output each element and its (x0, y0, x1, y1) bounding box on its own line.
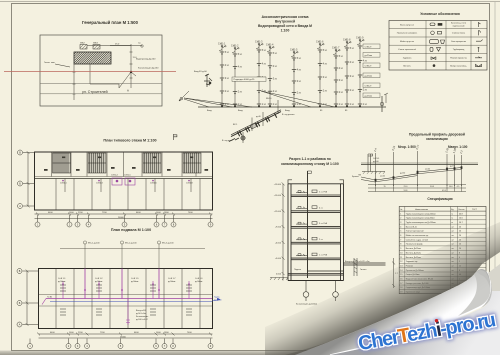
inner walls basement (39, 269, 213, 329)
svg-text:д=100: д=100 (373, 161, 380, 163)
spec row 8 (399, 245, 486, 247)
spec row 2 (399, 219, 486, 221)
svg-text:Ввод В1 д=50: Ввод В1 д=50 (194, 71, 208, 73)
svg-text:1 эт. РеВ: 1 эт. РеВ (319, 255, 328, 257)
window ticks top (40, 152, 211, 210)
outlet labels (345, 261, 370, 271)
svg-text:СтВ1-8: СтВ1-8 (186, 183, 193, 185)
stairwell block 2 (88, 153, 106, 173)
top band fixtures (44, 157, 208, 171)
svg-text:4 эт.: 4 эт. (262, 64, 267, 66)
svg-text:В. гор.давлен: В. гор.давлен (282, 114, 295, 116)
curl rim highlight (330, 272, 491, 355)
svg-text:КК1-1 д=100: КК1-1 д=100 (88, 242, 100, 244)
svg-text:Выпуск д=100 i=0.02 L=5м: Выпуск д=100 i=0.02 L=5м (345, 261, 370, 263)
svg-text:5 эт.: 5 эт. (297, 58, 302, 60)
svg-text:Условные обозначения: Условные обозначения (420, 12, 460, 16)
well circle KK (141, 45, 143, 47)
svg-text:55.8: 55.8 (404, 190, 408, 192)
svg-text:Ст.В 1-5: Ст.В 1-5 (131, 278, 139, 280)
svg-text:канализационному стояку М 1:10: канализационному стояку М 1:100 (281, 162, 339, 166)
svg-text:14.6: 14.6 (459, 218, 463, 220)
spec row 10 (399, 254, 486, 256)
right end riser with circle (381, 96, 383, 112)
svg-text:Задвижка: Задвижка (403, 57, 412, 59)
left outfall (361, 177, 376, 182)
svg-text:Сливная бочка: Сливная бочка (452, 33, 466, 35)
top dimension line (87, 45, 131, 47)
svg-text:5 эт.: 5 эт. (350, 48, 355, 50)
extra shadow wedge lower-left (285, 322, 385, 355)
svg-text:СтВ1-2: СтВ1-2 (231, 45, 239, 47)
svg-text:КК1-3 д=100: КК1-3 д=100 (162, 242, 174, 244)
legend symbols col2 (430, 23, 445, 67)
svg-text:5 эт. РеВ: 5 эт. РеВ (319, 192, 328, 194)
svg-text:шт: шт (452, 235, 455, 237)
riser top branch (256, 44, 262, 49)
svg-text:i=0.02: i=0.02 (425, 169, 430, 171)
spec row 1 (399, 214, 486, 216)
svg-text:ГОСТ: ГОСТ (472, 209, 478, 211)
svg-text:СтВ1-9: СтВ1-9 (365, 46, 373, 48)
svg-text:Труба канализационная Д=100мм: Труба канализационная Д=100мм (406, 213, 436, 215)
riser top branch (357, 40, 363, 45)
spec row 15 (399, 275, 486, 277)
svg-text:Подвал: Подвал (294, 269, 302, 271)
svg-text:Вентиль Д=15мм: Вентиль Д=15мм (406, 248, 422, 250)
svg-text:шт: шт (452, 239, 455, 241)
basement tiny labels (47, 278, 222, 321)
svg-text:9: 9 (400, 248, 401, 250)
ground hatch left (270, 278, 288, 281)
stack vent flag (308, 171, 312, 173)
center bath units purple (112, 178, 135, 185)
svg-text:СтК1-1: СтК1-1 (373, 158, 380, 160)
svg-text:Гильза: Гильза (360, 269, 367, 271)
dim line 1 below (35, 213, 213, 215)
svg-text:СтВ1-5: СтВ1-5 (124, 175, 131, 177)
svg-text:10: 10 (400, 252, 402, 254)
svg-text:3 эт.: 3 эт. (297, 81, 302, 83)
bulb inner shade (476, 269, 490, 288)
floor slabs (288, 195, 344, 281)
building outline basement (39, 269, 213, 329)
svg-text:Наименование: Наименование (415, 209, 428, 211)
svg-text:+9.000: +9.000 (275, 227, 282, 229)
svg-text:д=50мм: д=50мм (131, 281, 139, 283)
svg-text:26000: 26000 (118, 217, 125, 219)
diagonal to well (119, 72, 131, 88)
underside revealed (330, 291, 500, 355)
svg-text:№: № (400, 208, 402, 211)
sewer stack (307, 171, 309, 278)
svg-text:1:100: 1:100 (281, 29, 290, 33)
svg-text:Мверт. 1:100: Мверт. 1:100 (448, 145, 468, 149)
vent labels (352, 158, 380, 178)
axis circles bottom (35, 215, 213, 227)
svg-text:СтВ1-7: СтВ1-7 (332, 47, 340, 49)
curl body (295, 269, 491, 355)
svg-text:1 эт.: 1 эт. (339, 104, 344, 106)
street lines (40, 83, 162, 85)
svg-text:2 эт.: 2 эт. (323, 91, 328, 93)
riser St1 (221, 46, 223, 107)
dim ticks (36, 213, 212, 216)
axon wedge right (261, 91, 335, 107)
svg-text:Ревизия прочистка: Ревизия прочистка (450, 57, 468, 59)
svg-text:40.8: 40.8 (459, 213, 463, 215)
small blocks above building (80, 45, 87, 50)
left axis circles (18, 150, 35, 209)
sheet top edge line (0, 1, 500, 3)
svg-text:Мойка со смесителем чуг.: Мойка со смесителем чуг. (406, 234, 429, 237)
svg-text:4 эт.: 4 эт. (225, 65, 230, 67)
svg-text:0.000: 0.000 (276, 274, 282, 276)
svg-text:д=50мм: д=50мм (58, 281, 66, 283)
svg-text:Трубопровод: Трубопровод (453, 49, 465, 51)
bottom room walls (56, 179, 200, 211)
spec table frame (399, 207, 486, 294)
right riser label stack (363, 44, 380, 98)
left axis circles basement (17, 269, 39, 328)
riser St2 (234, 48, 236, 107)
pen red dot (435, 319, 439, 323)
inner long wall (35, 178, 213, 180)
svg-text:3 эт.: 3 эт. (225, 78, 230, 80)
svg-text:6: 6 (400, 235, 401, 237)
svg-text:26000: 26000 (120, 336, 127, 338)
svg-text:2 эт.: 2 эт. (225, 91, 230, 93)
spec header (400, 208, 477, 211)
bath labels (60, 175, 193, 185)
spec row 12 (399, 262, 486, 264)
left dim marks (27, 153, 29, 207)
right sliver under bulb (488, 264, 500, 291)
svg-text:20: 20 (459, 231, 461, 233)
stairwell block 1 (53, 153, 71, 173)
svg-text:СтВ1-5: СтВ1-5 (290, 49, 298, 51)
svg-text:ЖБ3: ЖБ3 (93, 43, 98, 45)
center outlet cluster (126, 299, 130, 326)
spec row 11 (399, 258, 486, 260)
svg-text:Узел перекрытия: Узел перекрытия (451, 41, 466, 43)
left elevation dim line (282, 182, 285, 280)
floor labels right (294, 192, 328, 271)
axon wedge left (184, 98, 252, 107)
svg-text:СтВ1-9: СтВ1-9 (365, 65, 373, 67)
svg-text:Водопровод Д=100: Водопровод Д=100 (136, 58, 156, 60)
riser top branch (219, 46, 225, 51)
svg-text:Мгор. 1:500: Мгор. 1:500 (398, 145, 416, 149)
svg-text:канализации: канализации (426, 137, 448, 141)
svg-text:12: 12 (400, 261, 402, 263)
svg-text:Ст.В 1-7: Ст.В 1-7 (168, 278, 176, 280)
svg-text:4 эт.: 4 эт. (350, 62, 355, 64)
legend symbols col4 (475, 22, 483, 67)
riser top branch (232, 48, 238, 53)
riser top branch (333, 50, 339, 55)
profile baseline (361, 164, 478, 166)
purple fittings (62, 283, 190, 291)
svg-text:11: 11 (400, 257, 402, 259)
svg-text:1 эт.: 1 эт. (350, 104, 355, 106)
svg-text:2 эт.: 2 эт. (350, 90, 355, 92)
svg-text:4: 4 (400, 226, 401, 228)
wells below (303, 281, 338, 302)
fixtures each floor (296, 190, 317, 256)
svg-text:Смеситель с душ. сеткой: Смеситель с душ. сеткой (406, 238, 428, 241)
purple main pipe (42, 269, 212, 305)
dim numbers (48, 212, 193, 219)
svg-text:20: 20 (459, 235, 461, 237)
svg-text:5 эт.: 5 эт. (323, 50, 328, 52)
bottom dim lines basement (39, 333, 213, 335)
svg-text:4 эт.: 4 эт. (297, 70, 302, 72)
blue water pipe (50, 298, 220, 301)
right vertical dim line (130, 44, 132, 88)
riser St8 (346, 42, 348, 107)
svg-text:подписанный: подписанный (453, 25, 465, 28)
svg-text:+15.600: +15.600 (274, 184, 282, 186)
svg-text:д=50мм: д=50мм (195, 281, 203, 283)
svg-text:Мойка чугунная: Мойка чугунная (400, 40, 414, 43)
svg-text:8: 8 (400, 244, 401, 246)
svg-text:План подвала М 1:100: План подвала М 1:100 (111, 228, 151, 232)
svg-text:20: 20 (459, 226, 461, 228)
svg-text:2 эт.: 2 эт. (273, 91, 278, 93)
svg-text:4 эт.: 4 эт. (319, 207, 323, 209)
riser St5 (293, 52, 295, 107)
svg-text:Спецификация: Спецификация (427, 197, 452, 201)
inlet marker left (204, 74, 212, 87)
svg-text:1: 1 (400, 213, 401, 215)
svg-text:ЖБ2: ЖБ2 (80, 43, 85, 45)
svg-text:КК1-2 д=100: КК1-2 д=100 (125, 242, 137, 244)
svg-text:1 эт.: 1 эт. (262, 104, 267, 106)
building left dim (73, 64, 75, 100)
riser top branch (317, 44, 323, 49)
riser top branch (267, 47, 273, 52)
sheet bottom edge shadow (0, 351, 500, 355)
riser St7 (335, 50, 337, 107)
svg-text:Подводка 4000 д=25: Подводка 4000 д=25 (234, 79, 256, 81)
svg-text:д=100 i=0.02: д=100 i=0.02 (136, 319, 149, 321)
svg-text:45.9: 45.9 (442, 190, 446, 192)
right paper edge (494, 2, 496, 268)
svg-text:3 эт.: 3 эт. (350, 76, 355, 78)
svg-text:3 эт.: 3 эт. (323, 77, 328, 79)
svg-text:СтВ1-6: СтВ1-6 (150, 183, 157, 185)
cast shadow on paper above fold (265, 222, 500, 355)
svg-text:СтВ1-1: СтВ1-1 (60, 183, 67, 185)
svg-text:2: 2 (400, 218, 401, 220)
svg-text:СтВ1-4: СтВ1-4 (111, 175, 118, 177)
riser St9 (359, 40, 361, 107)
svg-text:д=150: д=150 (450, 165, 455, 167)
svg-text:3 эт. РеВ: 3 эт. РеВ (319, 223, 328, 225)
svg-text:15: 15 (383, 186, 385, 188)
svg-text:Унитаз тарельчатый: Унитаз тарельчатый (406, 230, 424, 233)
building outline (35, 152, 213, 210)
svg-text:2 эт.: 2 эт. (297, 93, 302, 95)
svg-text:Труба: Труба (214, 297, 220, 299)
svg-text:5 эт.: 5 эт. (225, 52, 230, 54)
svg-text:д=25мм: д=25мм (365, 75, 373, 77)
slope labels (380, 165, 455, 177)
svg-text:3 эт.: 3 эт. (273, 79, 278, 81)
svg-text:Кол-во: Кол-во (459, 209, 465, 211)
svg-text:1 эт.: 1 эт. (297, 104, 302, 106)
svg-text:5 эт.: 5 эт. (238, 54, 243, 56)
svg-text:Канализация: Канализация (136, 316, 148, 318)
svg-text:Вентиль Д=25мм: Вентиль Д=25мм (406, 252, 422, 254)
svg-text:5 эт.: 5 эт. (262, 50, 267, 52)
baseline B1 (198, 106, 386, 108)
svg-text:Газон. кюв: Газон. кюв (44, 62, 55, 64)
svg-text:СтВ1-9: СтВ1-9 (365, 85, 373, 87)
svg-text:4.5: 4.5 (457, 186, 460, 188)
svg-text:Канализац. стояк: Канализац. стояк (451, 22, 466, 24)
section building walls (288, 184, 344, 281)
spec row 16 (399, 280, 486, 282)
svg-text:План типового этажа М 1:100: План типового этажа М 1:100 (103, 139, 156, 143)
svg-text:10.6: 10.6 (449, 186, 453, 188)
svg-text:1 эт.: 1 эт. (363, 104, 368, 106)
svg-text:СтВ1-3: СтВ1-3 (255, 41, 263, 43)
svg-text:5 эт.: 5 эт. (273, 53, 278, 55)
watermark (356, 309, 496, 355)
bottom dim table (368, 185, 466, 192)
water meter assembly (229, 100, 281, 143)
svg-text:Генеральный план М 1:500: Генеральный план М 1:500 (82, 20, 139, 25)
svg-text:+12.000: +12.000 (274, 211, 282, 213)
dim line 2 below (35, 218, 213, 220)
svg-text:+3.000: +3.000 (275, 258, 282, 260)
KK risers above building (83, 241, 174, 269)
svg-text:Ванная В-1б: Ванная В-1б (406, 226, 417, 228)
svg-text:5: 5 (400, 231, 401, 233)
vent roof detail right (362, 154, 385, 174)
spec row 5 (399, 232, 486, 234)
legend row texts col1 (397, 22, 468, 67)
purple riser dots on plan (62, 180, 190, 182)
svg-text:шт: шт (452, 231, 455, 233)
red road line (4, 71, 176, 73)
svg-text:4 эт.: 4 эт. (273, 66, 278, 68)
building hatched (74, 52, 111, 64)
top apartment walls (52, 152, 197, 177)
north arrow (179, 91, 189, 101)
spec row 18 (399, 288, 486, 290)
svg-text:СтВ1-6: СтВ1-6 (316, 41, 324, 43)
svg-text:Труба канализационная Д=50мм: Труба канализационная Д=50мм (406, 218, 435, 220)
svg-text:Труба канализационная Д=150мм: Труба канализационная Д=150мм (406, 222, 436, 224)
svg-text:КВ-50: КВ-50 (266, 98, 272, 100)
elevation labels (274, 184, 282, 276)
svg-text:1 эт.: 1 эт. (273, 104, 278, 106)
svg-text:Внутренней: Внутренней (275, 20, 295, 24)
risers (218, 37, 368, 107)
svg-text:В. гор.давл: В. гор.давл (222, 140, 233, 142)
roof parapet (288, 180, 344, 184)
spec row 17 (399, 284, 486, 286)
spec row 6 (399, 236, 486, 238)
legend table grid (389, 21, 487, 71)
svg-text:Продольный профиль дворовой: Продольный профиль дворовой (409, 133, 465, 137)
svg-text:Ванна чугунная: Ванна чугунная (400, 24, 414, 26)
svg-text:СтВ1-3: СтВ1-3 (96, 183, 103, 185)
svg-text:шт: шт (452, 226, 455, 228)
dim table numbers (383, 186, 459, 192)
svg-text:д=25мм: д=25мм (365, 55, 373, 57)
svg-text:3 эт.: 3 эт. (339, 80, 344, 82)
svg-text:Ст.В 1-1: Ст.В 1-1 (58, 278, 66, 280)
axon center boxed label (232, 77, 266, 81)
svg-text:4 эт.: 4 эт. (339, 68, 344, 70)
svg-text:Аксонометрическая схема: Аксонометрическая схема (262, 15, 310, 19)
svg-text:А: А (127, 89, 129, 93)
svg-text:СтВ1-4: СтВ1-4 (266, 44, 274, 46)
spec row 9 (399, 249, 486, 251)
stairwell block 3 (143, 153, 161, 173)
svg-text:Д=50мм: Д=50мм (214, 300, 222, 302)
spec row 13 (399, 267, 486, 269)
svg-text:56.7: 56.7 (459, 222, 463, 224)
svg-text:Гл.В1: Гл.В1 (47, 296, 53, 298)
svg-text:Вентиль: Вентиль (403, 66, 410, 68)
svg-text:2 эт.: 2 эт. (238, 92, 243, 94)
svg-text:+6.000: +6.000 (275, 242, 282, 244)
svg-text:Унитаз тарельчатый: Унитаз тарельчатый (398, 48, 416, 51)
riser St6 (319, 44, 321, 107)
stairwell block 4 (183, 153, 201, 173)
svg-text:Водопроводной сети и Ввода М: Водопроводной сети и Ввода М (258, 24, 312, 28)
svg-text:Разрез 1-1 и разбивка по: Разрез 1-1 и разбивка по (289, 157, 331, 161)
spec row 19 (400, 292, 461, 294)
svg-text:Ст.В 1-2: Ст.В 1-2 (95, 278, 103, 280)
building bottom line to street (89, 64, 91, 84)
fitting ticks groups (60, 285, 192, 315)
svg-text:2 эт.: 2 эт. (363, 90, 368, 92)
spec row 7 (399, 241, 486, 243)
svg-text:Умывальник эмалиров.: Умывальник эмалиров. (397, 33, 418, 35)
basement outlet pipe (308, 258, 386, 276)
svg-text:д=50 L=5м: д=50 L=5м (136, 313, 147, 315)
svg-text:30.8: 30.8 (430, 186, 434, 188)
svg-text:4 эт.: 4 эт. (363, 61, 368, 63)
section flag 1 (174, 134, 177, 140)
svg-text:Ск: Ск (138, 42, 141, 44)
svg-text:i=0.02: i=0.02 (380, 175, 385, 177)
svg-text:д=50мм: д=50мм (95, 281, 103, 283)
svg-text:3: 3 (400, 222, 401, 224)
svg-text:Канализация Д=150: Канализация Д=150 (138, 68, 159, 70)
axis circles bottom basement (28, 339, 214, 349)
svg-text:СтВ1-8: СтВ1-8 (343, 39, 351, 41)
genplan border box (40, 35, 162, 106)
svg-text:Умывальник фарф.: Умывальник фарф. (406, 243, 424, 246)
riser St4 (269, 47, 271, 107)
svg-text:2 эт.: 2 эт. (339, 92, 344, 94)
svg-text:Выпуск В1: Выпуск В1 (136, 310, 147, 312)
svg-text:+15.000: +15.000 (274, 195, 282, 197)
svg-text:4 эт.: 4 эт. (323, 64, 328, 66)
svg-text:СтВ1-1: СтВ1-1 (218, 43, 226, 45)
svg-text:ул. Строителей: ул. Строителей (82, 90, 108, 94)
rotated depth labels (373, 144, 464, 155)
svg-text:Ст.В 1-9: Ст.В 1-9 (195, 278, 203, 280)
svg-text:д=150: д=150 (400, 173, 405, 175)
